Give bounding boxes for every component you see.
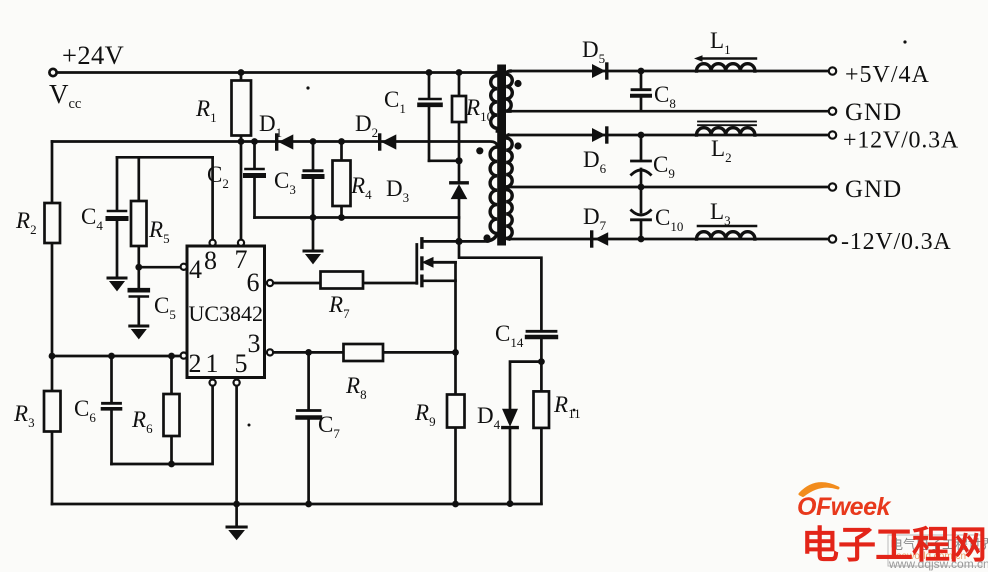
diode D7 bbox=[590, 232, 593, 246]
svg-text:R10: R10 bbox=[465, 95, 493, 124]
capacitor C3 bbox=[304, 169, 322, 172]
junction ground bus D4 bbox=[507, 500, 514, 507]
pin 8 terminal bbox=[210, 240, 216, 246]
wire bottom ground bus bbox=[52, 503, 541, 506]
junction drain node bbox=[455, 238, 462, 245]
svg-text:C10: C10 bbox=[655, 205, 683, 234]
wire pin 3 line through R8 to source bbox=[273, 351, 455, 354]
transistor Q1 power MOSFET bbox=[415, 245, 418, 284]
svg-text:2: 2 bbox=[189, 349, 202, 378]
transformer T core bbox=[497, 65, 506, 246]
svg-text:1: 1 bbox=[206, 349, 219, 378]
svg-text:Vcc: Vcc bbox=[49, 79, 81, 112]
diode D6 bbox=[592, 128, 606, 142]
junction R10 top bbox=[456, 69, 463, 76]
capacitor C10 bbox=[640, 187, 643, 239]
svg-text:C3: C3 bbox=[274, 168, 296, 197]
svg-text:D4: D4 bbox=[477, 403, 501, 432]
svg-text:R1: R1 bbox=[195, 96, 217, 125]
resistor R5 bbox=[131, 201, 147, 246]
wire pin 6 gate line through R7 bbox=[273, 282, 416, 285]
wire -12V output line bbox=[509, 238, 829, 241]
pin 3 terminal bbox=[267, 349, 273, 355]
scan speck 3 bbox=[573, 409, 576, 412]
wire C1 column bbox=[428, 73, 431, 161]
node Vcc input terminal bbox=[49, 69, 56, 76]
svg-text:D7: D7 bbox=[583, 204, 607, 233]
wire C5 column bbox=[137, 267, 140, 325]
svg-text:C9: C9 bbox=[653, 152, 675, 181]
wire C3 ground stem bbox=[312, 218, 315, 251]
diode D2 bbox=[378, 135, 381, 149]
junction R6 bottom bbox=[168, 461, 175, 468]
svg-text:D6: D6 bbox=[583, 147, 607, 176]
capacitor C2 bbox=[246, 168, 264, 171]
inductor L1 bbox=[697, 64, 755, 71]
junction R2 bottom on VFB bus bbox=[49, 353, 56, 360]
resistor R11 bbox=[534, 391, 550, 428]
svg-text:5: 5 bbox=[235, 349, 248, 378]
wire C7 column bbox=[307, 352, 310, 504]
ground below C4 bbox=[108, 277, 126, 280]
junction ground bus R9 bbox=[452, 501, 459, 508]
svg-text:D2: D2 bbox=[355, 111, 378, 140]
junction C10 bottom bbox=[638, 236, 645, 243]
svg-text:+5V/4A: +5V/4A bbox=[845, 62, 930, 88]
wire VFB bus to pin 2 bbox=[52, 355, 180, 358]
junction ground bus pin5 bbox=[233, 501, 240, 508]
junction R5 / C5 / pin4 bbox=[135, 264, 142, 271]
svg-text:电子工程网: 电子工程网 bbox=[801, 525, 986, 567]
junction R1 top bbox=[238, 69, 245, 76]
pin 7 terminal bbox=[238, 240, 244, 246]
svg-text:C4: C4 bbox=[81, 204, 103, 233]
capacitor C6 bbox=[103, 402, 121, 405]
svg-text:R7: R7 bbox=[328, 292, 350, 321]
wire +5V output line bbox=[510, 70, 829, 73]
watermark box bbox=[888, 535, 982, 566]
terminal +5V output bbox=[829, 67, 836, 74]
capacitor C4 bbox=[108, 210, 126, 213]
svg-text:L1: L1 bbox=[710, 28, 731, 57]
junction R4 top bbox=[338, 138, 345, 145]
pin 4 terminal bbox=[181, 264, 187, 270]
svg-text:OFweek: OFweek bbox=[797, 493, 891, 521]
junction ground bus C7 bbox=[305, 501, 312, 508]
inductor L3 bbox=[697, 232, 755, 239]
wire VREF line to C4 R5 bbox=[117, 156, 213, 159]
resistor R4 bbox=[333, 161, 351, 207]
pin 6 terminal bbox=[267, 280, 273, 286]
wire R6 column bbox=[170, 356, 173, 464]
scan speck 1 bbox=[306, 86, 309, 89]
capacitor C5 bbox=[130, 288, 148, 293]
svg-text:L3: L3 bbox=[710, 199, 731, 228]
resistor R10 bbox=[452, 96, 466, 122]
wire R4 column bbox=[340, 142, 343, 218]
resistor R6 bbox=[164, 394, 180, 436]
polarity dot secondary 2 bbox=[514, 142, 521, 149]
diode D5 bbox=[592, 64, 606, 78]
wire R11 branch bbox=[540, 362, 543, 504]
polarity dot feedback winding bbox=[476, 147, 483, 154]
ground below C3 bbox=[304, 250, 322, 253]
transformer primary winding (upper left) bbox=[491, 73, 498, 132]
wire C14 bottom column bbox=[540, 339, 543, 362]
wire drain line MOSFET to winding bbox=[422, 240, 488, 243]
terminal -12V output bbox=[829, 235, 836, 242]
svg-text:R8: R8 bbox=[345, 373, 367, 402]
junction C8 top bbox=[638, 68, 645, 75]
terminal GND1 output bbox=[829, 108, 836, 115]
svg-text:R4: R4 bbox=[350, 173, 372, 202]
svg-text:R6: R6 bbox=[131, 407, 153, 436]
transformer feedback winding (lower left) bbox=[488, 147, 497, 241]
wire GND2 output line bbox=[506, 186, 829, 189]
resistor R9 bbox=[447, 395, 465, 428]
svg-text:UC3842: UC3842 bbox=[189, 301, 264, 326]
wire pin 5 column bbox=[235, 386, 238, 504]
svg-text:D5: D5 bbox=[582, 37, 605, 66]
wire clamp node line C1 to R10/D3 bbox=[429, 159, 459, 162]
capacitor C14 bbox=[527, 330, 556, 333]
junction C9 bottom / C10 top bbox=[638, 184, 645, 191]
svg-text:-12V/0.3A: -12V/0.3A bbox=[841, 229, 952, 255]
wire D3 column bbox=[458, 161, 461, 242]
svg-text:R11: R11 bbox=[553, 392, 581, 421]
pin 1 terminal bbox=[210, 380, 216, 386]
junction C1 top bbox=[426, 69, 433, 76]
svg-text:C7: C7 bbox=[318, 412, 340, 441]
inductor L2 bbox=[697, 128, 755, 135]
svg-text:C1: C1 bbox=[384, 87, 406, 116]
wire pin 4 line bbox=[139, 266, 181, 269]
resistor R8 bbox=[344, 344, 384, 361]
OFweek logo swoosh bbox=[800, 484, 838, 496]
scan speck 4 bbox=[248, 424, 251, 427]
junction C2 top bbox=[251, 138, 258, 145]
svg-text:C8: C8 bbox=[654, 82, 676, 111]
transformer secondary winding 1 bbox=[506, 71, 512, 111]
svg-text:3: 3 bbox=[248, 329, 261, 358]
junction C3 top bbox=[310, 138, 317, 145]
wire C4 column bbox=[116, 157, 119, 277]
junction R4 bottom bbox=[338, 214, 345, 221]
svg-text:+12V/0.3A: +12V/0.3A bbox=[843, 128, 959, 154]
svg-text:+24V: +24V bbox=[62, 40, 124, 70]
wire R1 column (top rail to pin 7) bbox=[240, 73, 243, 240]
svg-text:GND: GND bbox=[845, 99, 902, 126]
capacitor C9 bbox=[640, 135, 643, 187]
wire C6/R6 bottom line to pin 1 bbox=[112, 386, 213, 464]
svg-text:R2: R2 bbox=[15, 208, 37, 237]
junction C9 top bbox=[638, 132, 645, 139]
transformer secondary winding 3 bbox=[506, 190, 512, 240]
ground below C5 bbox=[130, 325, 148, 328]
svg-text:6: 6 bbox=[247, 268, 260, 297]
ground at pin 5 bbox=[235, 504, 238, 527]
svg-text:L2: L2 bbox=[711, 136, 732, 165]
svg-text:8: 8 bbox=[204, 246, 217, 275]
junction source / R8 / R9 bbox=[452, 349, 459, 356]
svg-text:R3: R3 bbox=[13, 401, 35, 430]
diode D1 bbox=[275, 135, 278, 149]
IC U1 UC3842 bbox=[187, 246, 265, 378]
diode D3 bbox=[451, 181, 467, 184]
pin 2 terminal bbox=[181, 353, 187, 359]
wire R9 column bbox=[454, 352, 457, 504]
diode D4 bbox=[503, 409, 517, 425]
svg-text:C5: C5 bbox=[154, 293, 176, 322]
junction R1 bottom / pin7 bbox=[238, 138, 245, 145]
wire second rail (VCC aux rail with D1 D2) bbox=[52, 142, 497, 148]
wire GND1 output line bbox=[510, 110, 829, 113]
terminal GND2 output bbox=[829, 183, 836, 190]
scan speck 2 bbox=[903, 40, 906, 43]
svg-text:R5: R5 bbox=[148, 217, 170, 246]
junction winding bottom bbox=[483, 234, 490, 241]
wire drain to C14 feed bbox=[459, 241, 541, 329]
resistor R7 bbox=[321, 272, 364, 289]
wire D4 branch bbox=[510, 362, 541, 504]
resistor R3 bbox=[44, 391, 61, 432]
svg-text:C14: C14 bbox=[495, 321, 524, 350]
junction clamp node R10/D3/C1 bbox=[455, 157, 462, 164]
wire +24V top rail bbox=[57, 71, 497, 74]
terminal +12V output bbox=[829, 131, 836, 138]
junction C6 top bbox=[108, 353, 115, 360]
pin 5 terminal bbox=[234, 380, 240, 386]
svg-text:D1: D1 bbox=[259, 111, 282, 140]
junction R6 top bbox=[168, 353, 175, 360]
svg-text:D3: D3 bbox=[386, 176, 409, 205]
wire pin 8 column bbox=[211, 157, 214, 239]
junction C14 bottom bbox=[538, 358, 545, 365]
capacitor C1 bbox=[420, 98, 441, 101]
polarity dot secondary 1 bbox=[514, 80, 521, 87]
svg-text:4: 4 bbox=[189, 255, 202, 284]
wire +12V output line bbox=[508, 134, 829, 137]
capacitor C7 bbox=[298, 409, 321, 412]
wire C3 column bbox=[312, 142, 315, 218]
resistor R1 bbox=[232, 81, 252, 136]
transformer secondary winding 2 bbox=[506, 135, 512, 187]
resistor R2 bbox=[45, 203, 61, 243]
svg-text:C2: C2 bbox=[207, 162, 229, 191]
wire C2/C3/R4 bottom line to D3 anode bbox=[255, 216, 460, 219]
svg-text:R9: R9 bbox=[414, 400, 436, 429]
junction C7 top bbox=[305, 349, 312, 356]
wire C2 column bbox=[253, 142, 256, 218]
wire R10 column bbox=[458, 73, 461, 161]
wire C6 column bbox=[110, 356, 113, 464]
capacitor C8 bbox=[640, 71, 643, 111]
svg-text:GND: GND bbox=[845, 176, 902, 203]
wire R5 column bbox=[137, 157, 140, 267]
svg-text:C6: C6 bbox=[74, 396, 96, 425]
wire left vertical R2/R3 column bbox=[51, 142, 54, 505]
junction C3 bottom bbox=[310, 214, 317, 221]
